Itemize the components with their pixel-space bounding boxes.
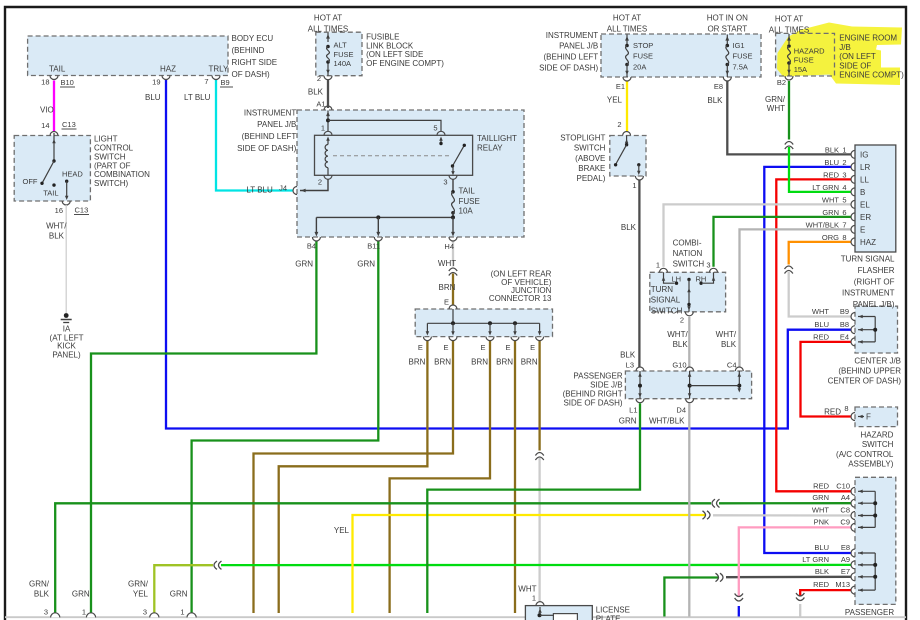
svg-text:BLK: BLK [308,88,324,97]
svg-text:SIGNAL: SIGNAL [651,296,681,305]
svg-text:E: E [480,343,485,352]
svg-text:BRN: BRN [434,358,451,367]
svg-text:RED: RED [813,481,829,490]
svg-text:LL: LL [860,176,869,185]
svg-text:HAZARD: HAZARD [861,431,894,440]
svg-text:(A/C CONTROL: (A/C CONTROL [836,450,894,459]
svg-text:A4: A4 [841,493,850,502]
svg-text:3: 3 [842,171,846,180]
svg-text:LT GRN: LT GRN [802,555,829,564]
svg-text:E1: E1 [616,82,625,91]
svg-text:CONNECTOR 13: CONNECTOR 13 [489,294,552,303]
svg-text:GRN: GRN [357,260,375,269]
svg-text:SWITCH: SWITCH [651,306,683,315]
svg-text:1: 1 [656,261,660,270]
svg-text:SWITCH: SWITCH [673,260,705,269]
svg-text:18: 18 [41,78,49,87]
svg-text:SIDE OF: SIDE OF [839,61,871,70]
svg-text:C13: C13 [75,206,89,215]
svg-text:RED: RED [813,332,829,341]
svg-text:GRN: GRN [619,417,637,426]
svg-text:BLK: BLK [34,590,50,599]
svg-text:1: 1 [82,608,86,617]
svg-text:8: 8 [844,404,848,413]
svg-text:PANEL J/B: PANEL J/B [257,120,296,129]
svg-text:E8: E8 [841,543,850,552]
svg-text:E: E [418,343,423,352]
svg-text:FUSIBLE: FUSIBLE [366,33,399,42]
svg-text:WHT: WHT [812,506,829,515]
svg-text:INSTRUMENT: INSTRUMENT [244,109,297,118]
svg-text:5: 5 [433,123,437,132]
svg-text:BLK: BLK [815,567,829,576]
svg-text:1: 1 [532,594,536,603]
svg-text:RED: RED [823,171,839,180]
svg-text:LICENSE: LICENSE [596,606,630,615]
svg-text:VIO: VIO [40,106,54,115]
svg-text:WHT: WHT [767,104,785,113]
svg-text:ALL TIMES: ALL TIMES [769,26,809,35]
svg-text:E: E [505,343,510,352]
svg-text:(RIGHT OF: (RIGHT OF [854,277,895,286]
svg-text:FUSE: FUSE [334,50,354,59]
svg-text:E: E [444,298,449,307]
svg-text:3: 3 [44,608,48,617]
svg-text:SIDE OF DASH): SIDE OF DASH) [539,64,598,73]
svg-text:HOT AT: HOT AT [613,14,641,23]
svg-text:WHT: WHT [518,584,536,593]
svg-text:LT BLU: LT BLU [246,186,273,195]
svg-text:BLU: BLU [145,93,161,102]
svg-text:E: E [530,343,535,352]
svg-text:BRAKE: BRAKE [578,164,605,173]
svg-text:(BEHIND RIGHT: (BEHIND RIGHT [563,390,623,399]
svg-text:C8: C8 [840,506,850,515]
svg-text:C4: C4 [727,361,737,370]
svg-text:10A: 10A [459,207,474,216]
svg-text:WHT: WHT [812,307,829,316]
svg-text:ALT: ALT [334,41,348,50]
svg-text:GRN/: GRN/ [128,579,149,588]
svg-text:PANEL J/B): PANEL J/B) [853,300,895,309]
svg-text:BLK: BLK [620,351,636,360]
svg-text:TAIL: TAIL [43,189,58,198]
svg-text:GRN: GRN [812,493,829,502]
svg-text:B4: B4 [307,242,316,251]
svg-text:20A: 20A [633,63,646,72]
svg-text:L3: L3 [626,361,634,370]
svg-text:A9: A9 [841,555,850,564]
svg-text:BLU: BLU [824,158,839,167]
svg-text:140A: 140A [334,59,352,68]
svg-text:FUSE: FUSE [459,197,480,206]
svg-text:7.5A: 7.5A [733,63,748,72]
svg-text:HAZ: HAZ [860,238,876,247]
svg-text:INSTRUMENT: INSTRUMENT [546,31,599,40]
svg-text:4: 4 [842,183,846,192]
svg-text:HEAD: HEAD [62,170,83,179]
svg-text:OF DASH): OF DASH) [232,70,271,79]
svg-text:BLK: BLK [721,340,737,349]
svg-text:BRN: BRN [521,358,538,367]
svg-text:B9: B9 [221,78,230,87]
svg-text:INSTRUMENT: INSTRUMENT [842,289,895,298]
svg-text:E: E [443,343,448,352]
svg-text:COMBINATION: COMBINATION [94,170,150,179]
svg-text:E: E [860,226,865,235]
svg-text:2: 2 [617,120,621,129]
svg-text:RED: RED [824,408,841,417]
svg-text:HAZ: HAZ [160,65,176,74]
svg-text:(ON LEFT SIDE: (ON LEFT SIDE [366,50,423,59]
svg-text:BLU: BLU [814,320,829,329]
svg-text:SWITCH): SWITCH) [94,179,129,188]
svg-text:BRN: BRN [471,358,488,367]
svg-text:F: F [866,413,871,422]
svg-text:1: 1 [321,123,325,132]
svg-text:B11: B11 [367,242,380,251]
svg-text:KICK: KICK [57,342,76,351]
svg-text:YEL: YEL [607,96,623,105]
svg-text:TRLY: TRLY [209,65,230,74]
svg-text:OF ENGINE COMPT): OF ENGINE COMPT) [366,59,444,68]
svg-text:STOP: STOP [633,41,653,50]
svg-text:IG: IG [860,151,868,160]
svg-text:1: 1 [180,608,184,617]
svg-text:GRN: GRN [295,260,313,269]
svg-text:GRN/: GRN/ [765,95,786,104]
svg-text:G10: G10 [672,361,686,370]
svg-text:IA: IA [63,324,71,333]
svg-text:WHT: WHT [438,259,456,268]
svg-text:YEL: YEL [334,526,350,535]
svg-text:B: B [860,188,865,197]
svg-text:J/B: J/B [839,43,851,52]
svg-text:PEDAL): PEDAL) [576,174,605,183]
svg-text:B2: B2 [777,78,786,87]
svg-text:FUSE: FUSE [633,52,653,61]
svg-text:TAIL: TAIL [459,187,476,196]
svg-text:TAIL: TAIL [49,65,66,74]
svg-text:OFF: OFF [23,177,38,186]
svg-text:LINK BLOCK: LINK BLOCK [366,42,414,51]
svg-text:BLK: BLK [825,146,839,155]
svg-text:ENGINE COMPT): ENGINE COMPT) [839,71,904,80]
svg-text:LT BLU: LT BLU [184,93,211,102]
svg-text:(ON LEFT: (ON LEFT [839,52,876,61]
svg-text:PASSENGER: PASSENGER [845,608,894,617]
svg-text:H4: H4 [444,242,454,251]
svg-text:LT GRN: LT GRN [812,183,839,192]
svg-text:GRN: GRN [822,208,839,217]
svg-text:WHT/: WHT/ [716,330,737,339]
svg-text:HAZARD: HAZARD [794,47,825,56]
svg-text:SWITCH: SWITCH [862,440,894,449]
svg-text:B8: B8 [840,320,849,329]
svg-text:WHT/: WHT/ [667,330,688,339]
svg-text:16: 16 [55,206,63,215]
svg-text:D4: D4 [676,406,686,415]
svg-text:LR: LR [860,163,870,172]
svg-text:BLK: BLK [621,223,637,232]
svg-text:LH: LH [672,274,682,283]
svg-text:CENTER OF DASH): CENTER OF DASH) [828,377,902,386]
svg-text:BLU: BLU [814,543,829,552]
svg-text:(PART OF: (PART OF [94,161,131,170]
svg-text:PASSENGER: PASSENGER [573,372,622,381]
svg-text:ALL TIMES: ALL TIMES [607,25,647,34]
svg-text:3: 3 [706,261,710,270]
svg-text:SIDE J/B: SIDE J/B [590,381,622,390]
svg-text:SIDE OF DASH): SIDE OF DASH) [563,399,622,408]
svg-text:IG1: IG1 [733,41,745,50]
svg-text:B9: B9 [840,307,849,316]
svg-text:2: 2 [680,315,684,324]
svg-text:C9: C9 [840,517,850,526]
svg-text:E7: E7 [841,567,850,576]
svg-text:COMBI-: COMBI- [673,238,702,247]
svg-text:8: 8 [842,233,846,242]
svg-text:FLASHER: FLASHER [858,266,895,275]
svg-text:PNK: PNK [814,517,829,526]
svg-text:3: 3 [143,608,147,617]
svg-text:TURN: TURN [651,285,673,294]
svg-text:WHT/BLK: WHT/BLK [806,221,839,230]
svg-text:6: 6 [842,208,846,217]
svg-text:CENTER J/B: CENTER J/B [854,357,901,366]
svg-text:(ABOVE: (ABOVE [575,154,605,163]
svg-text:ER: ER [860,213,871,222]
svg-text:(BEHIND UPPER: (BEHIND UPPER [838,367,901,376]
svg-text:PANEL): PANEL) [52,351,81,360]
svg-text:SWITCH: SWITCH [94,153,126,162]
svg-text:TURN SIGNAL: TURN SIGNAL [841,255,895,264]
svg-text:STOPLIGHT: STOPLIGHT [560,134,605,143]
svg-text:FUSE: FUSE [794,56,814,65]
svg-text:SIDE OF DASH): SIDE OF DASH) [237,144,296,153]
svg-text:EL: EL [860,201,870,210]
svg-text:TAILLIGHT: TAILLIGHT [477,134,517,143]
svg-text:(BEHIND LEFT: (BEHIND LEFT [242,132,297,141]
svg-text:2: 2 [318,178,322,187]
svg-text:2: 2 [842,158,846,167]
svg-text:15A: 15A [794,65,807,74]
svg-text:YEL: YEL [133,590,149,599]
svg-text:BLK: BLK [49,232,65,241]
svg-text:1: 1 [842,146,846,155]
svg-text:E4: E4 [840,332,849,341]
svg-text:BRN: BRN [439,283,456,292]
svg-text:BLK: BLK [707,96,723,105]
svg-text:BRN: BRN [409,358,426,367]
svg-text:FUSE: FUSE [733,52,753,61]
svg-text:GRN/: GRN/ [29,579,50,588]
svg-text:PANEL J/B: PANEL J/B [559,42,598,51]
svg-text:GRN: GRN [72,590,90,599]
svg-text:GRN: GRN [170,590,188,599]
svg-text:PLATE: PLATE [596,615,621,620]
svg-text:WHT: WHT [822,196,839,205]
svg-text:NATION: NATION [673,249,703,258]
svg-text:7: 7 [842,221,846,230]
svg-text:HOT AT: HOT AT [775,15,803,24]
svg-text:M13: M13 [835,580,850,589]
svg-text:ASSEMBLY): ASSEMBLY) [848,460,894,469]
svg-text:HOT AT: HOT AT [314,14,342,23]
svg-text:E8: E8 [714,82,723,91]
svg-text:LIGHT: LIGHT [94,135,118,144]
svg-text:ENGINE ROOM: ENGINE ROOM [839,34,897,43]
svg-text:(BEHIND: (BEHIND [232,46,265,55]
svg-text:2: 2 [317,74,321,83]
svg-text:A1: A1 [316,100,325,109]
svg-text:WHT/: WHT/ [46,222,67,231]
svg-text:BRN: BRN [496,358,513,367]
svg-text:RH: RH [696,274,707,283]
svg-text:HOT IN ON: HOT IN ON [707,14,748,23]
svg-text:14: 14 [41,121,49,130]
svg-text:ORG: ORG [822,233,839,242]
svg-text:SWITCH: SWITCH [574,144,606,153]
svg-text:J4: J4 [279,184,287,193]
svg-text:B10: B10 [61,78,74,87]
svg-text:ALL TIMES: ALL TIMES [308,25,348,34]
svg-text:L1: L1 [629,406,637,415]
svg-text:19: 19 [152,78,160,87]
svg-text:CONTROL: CONTROL [94,144,134,153]
svg-text:RELAY: RELAY [477,143,503,152]
svg-text:RIGHT SIDE: RIGHT SIDE [232,58,278,67]
svg-text:3: 3 [443,178,447,187]
svg-text:(BEHIND LEFT: (BEHIND LEFT [544,53,599,62]
svg-text:7: 7 [204,77,208,86]
svg-text:C13: C13 [62,120,76,129]
svg-text:1: 1 [632,181,636,190]
svg-text:C10: C10 [836,481,850,490]
svg-text:WHT/BLK: WHT/BLK [649,417,685,426]
svg-text:BLK: BLK [673,340,689,349]
svg-text:RED: RED [813,580,829,589]
svg-text:BODY ECU: BODY ECU [232,34,274,43]
svg-text:5: 5 [842,196,846,205]
svg-text:OR START: OR START [707,25,747,34]
